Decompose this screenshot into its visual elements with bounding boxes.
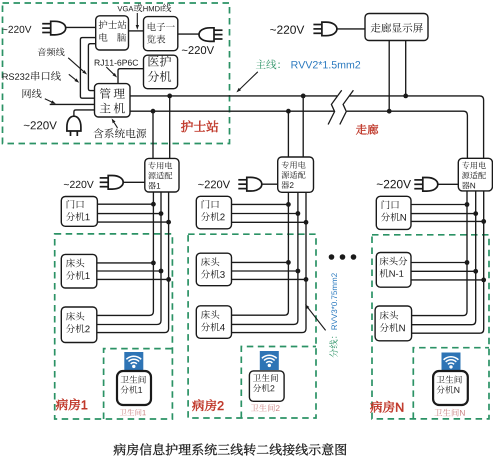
label 走廊 red — [356, 124, 378, 135]
label 床头分机3 — [201, 257, 220, 266]
wire corridor display drop left — [388, 41, 390, 112]
wire ward2 drop from bus2 — [287, 111, 289, 157]
wire door1 stub2 — [97, 213, 161, 215]
label 专用电源适配器1 — [148, 162, 172, 170]
bus line1 left segment — [130, 95, 337, 97]
box 医护分机 — [144, 55, 178, 88]
label 门口分机N — [382, 200, 399, 209]
label 病房1 red — [56, 399, 87, 411]
junction dot — [304, 220, 309, 225]
wifi icon 卫生间分机N — [442, 353, 461, 372]
wire door2 stub3 — [232, 221, 307, 223]
junction dot — [159, 269, 164, 274]
box 管理主机 — [95, 84, 131, 117]
box 卫生间分机1 — [117, 371, 151, 405]
wire ward1 branch1 — [97, 192, 154, 315]
junction dot — [151, 202, 156, 207]
wire RS232 PC to host — [80, 38, 95, 99]
label 门口分机2 — [202, 200, 219, 209]
plug P6 ~220V adapter2 — [238, 177, 277, 191]
label 卫生间2 — [251, 404, 280, 412]
label 病房N red — [370, 401, 403, 413]
bus line2 left segment — [130, 110, 334, 112]
wire door1 stub3 — [97, 221, 168, 223]
bathroomN dashed border 卫生间N — [413, 348, 489, 419]
label 护士站电脑 — [99, 20, 127, 29]
label 卫生间N — [434, 409, 464, 417]
junction dot — [151, 109, 156, 114]
junction dot — [304, 277, 309, 282]
label 护士站 red — [181, 120, 218, 132]
wire wardN branch3 — [412, 191, 484, 333]
bus line1 right segment — [350, 96, 484, 158]
label ~220V wardN — [377, 180, 411, 188]
wire ward1 branch2 — [97, 192, 161, 325]
wire wardN branch1 — [412, 191, 467, 316]
wire bedN-1 stub3 — [411, 279, 484, 281]
bus line2 right segment — [347, 111, 468, 158]
wire bed1 stub2 — [97, 270, 161, 272]
plug P3 ~220V host — [67, 116, 81, 136]
junction dot — [159, 211, 164, 216]
label 病房2 red — [192, 399, 223, 411]
junction dot — [465, 260, 470, 265]
plug P1 ~220V nurse PC — [42, 21, 65, 35]
wire door2 stub1 — [232, 203, 289, 205]
box 专用电源适配器N — [458, 158, 492, 191]
label 门口分机1 — [67, 200, 84, 209]
wire VGA between PC and list — [129, 30, 144, 32]
wire corridor display to plug P4 — [337, 28, 365, 30]
junction dot — [166, 220, 171, 225]
wire bedN-1 stub2 — [411, 270, 476, 272]
label ~220V top-left — [2, 26, 31, 33]
break mark left — [328, 90, 342, 124]
wire ward2 branch2 — [232, 192, 298, 324]
wire corridor display drop right — [405, 41, 407, 96]
wire wardN branch2 — [412, 191, 476, 325]
ward2 dashed border 病房2 — [188, 234, 316, 418]
wire ward1 drop from bus2 — [152, 111, 154, 158]
label 卫生间分机2 — [253, 374, 278, 382]
wire ward1 drop from bus1 — [169, 96, 171, 158]
junction dot — [296, 269, 301, 274]
arrow 分线 pointer — [305, 304, 326, 330]
label 卫生间分机1 — [121, 375, 146, 383]
bathroom1 dashed border 卫生间1 — [104, 349, 173, 419]
arrow 网线 pointer — [45, 99, 56, 104]
label 床头分机2 — [66, 312, 85, 321]
box 床头分机4 — [196, 306, 231, 339]
wire doorN stub1 — [411, 204, 467, 206]
box 卫生间分机N — [433, 371, 468, 405]
wire bed1 stub1 — [97, 262, 154, 264]
label 主线 RVV2*1.5mm2 — [256, 60, 280, 70]
label 床头分机1 — [66, 259, 85, 268]
box 床头分机3 — [196, 253, 231, 286]
wifi icon 卫生间分机2 — [260, 351, 279, 370]
junction dot — [286, 202, 291, 207]
wire host to plug P3 — [74, 110, 95, 117]
wire bed3 stub1 — [232, 261, 289, 263]
plug P4 ~220V corridor — [313, 22, 337, 36]
nurse station dashed border 护士站 — [3, 3, 230, 144]
label 走廊显示屏 — [371, 23, 423, 33]
wire ward1 branch3 — [97, 192, 169, 333]
junction dot — [481, 219, 486, 224]
box 床头分机1 — [61, 254, 97, 288]
wire list to plug P2 — [178, 33, 199, 35]
box 床头分机N — [375, 306, 412, 341]
label 专用电源适配器2 — [282, 161, 306, 169]
junction dot — [296, 211, 301, 216]
box 门口分机N — [376, 196, 411, 229]
label 床头分机4 — [201, 310, 220, 319]
ellipsis dots between ward2 and wardN — [329, 254, 357, 260]
wire bed3 stub3 — [232, 278, 307, 280]
plug P2 ~220V list — [199, 28, 223, 42]
arrow RS232 pointer — [69, 74, 79, 82]
wire door2 stub2 — [232, 213, 298, 215]
label ~220V host — [24, 121, 57, 129]
junction dot — [286, 260, 291, 265]
junction dot — [301, 94, 306, 99]
box 门口分机2 — [196, 196, 231, 229]
wire bedN-1 stub1 — [411, 262, 467, 264]
label ~220V list — [182, 46, 214, 54]
break mark right — [340, 90, 354, 124]
label VGA或HMDI线 — [117, 4, 171, 13]
arrow RJ11 pointer — [106, 67, 117, 78]
wire audio PC to host — [88, 44, 95, 91]
label ~220V ward1 — [64, 181, 94, 188]
junction dot — [167, 94, 172, 99]
bathroom2 dashed border 卫生间2 — [241, 347, 316, 419]
wire network line — [50, 103, 95, 105]
label ~220V corridor — [270, 25, 304, 33]
wire ward2 branch1 — [232, 192, 289, 315]
wire plug P1 to nurse PC — [66, 26, 96, 28]
label 卫生间分机N — [437, 375, 462, 383]
wire ward2 drop from bus1 — [302, 96, 304, 157]
label ~220V ward2 — [198, 180, 230, 188]
box 护士站电脑 — [96, 16, 129, 50]
wardN dashed border 病房N — [372, 235, 489, 419]
label 医护分机 — [148, 56, 171, 67]
junction dot — [286, 109, 291, 114]
wifi icon 卫生间分机1 — [124, 352, 143, 371]
arrow VGA pointer — [136, 13, 139, 30]
label 音频线 — [38, 48, 65, 57]
label 分线 RVV3*0.75mm2 vertical — [329, 337, 338, 358]
box 门口分机1 — [61, 197, 97, 227]
junction dot — [403, 94, 408, 99]
junction dot — [387, 109, 392, 114]
plug P5 ~220V adapter1 — [100, 176, 145, 190]
label 含系统电源 — [94, 128, 147, 138]
box 电子一览表 — [144, 17, 178, 51]
wire doorN stub3 — [411, 220, 484, 222]
label 床头分机N — [380, 311, 399, 320]
arrow 主线 pointer — [236, 72, 257, 93]
arrow 音频线 pointer — [68, 58, 87, 75]
box 专用电源适配器2 — [278, 157, 314, 192]
wire host to medical extension — [118, 69, 144, 84]
box 卫生间分机2 — [249, 371, 284, 401]
junction dot — [473, 269, 478, 274]
junction dot — [465, 202, 470, 207]
label 床头分机N-1 — [380, 257, 408, 266]
junction dot — [151, 261, 156, 266]
wire bed1 stub3 — [97, 278, 169, 280]
box 走廊显示屏 — [365, 14, 428, 41]
wire ward2 branch3 — [232, 192, 307, 333]
box 床头分机N-1 — [376, 253, 411, 288]
junction dot — [166, 277, 171, 282]
wire bed3 stub2 — [232, 270, 298, 272]
label 电子一览表 — [148, 22, 175, 31]
plug P7 ~220V adapterN — [414, 178, 458, 192]
arrow 含系统电源 pointer — [112, 118, 118, 128]
junction dot — [481, 278, 486, 283]
label 网线 — [23, 89, 42, 98]
title 病房信息护理系统三线转二线接线示意图 — [114, 443, 347, 455]
box 专用电源适配器1 — [145, 158, 179, 192]
ward1 dashed border 病房1 — [55, 234, 173, 419]
label RS232串口线 — [3, 71, 61, 81]
label 卫生间1 — [120, 409, 146, 416]
label 管理主机 — [100, 88, 111, 99]
label RJ11-6P6C — [95, 60, 138, 66]
wire doorN stub2 — [411, 213, 476, 215]
wire door1 stub1 — [97, 203, 153, 205]
label 专用电源适配器N — [462, 161, 486, 169]
box 床头分机2 — [61, 307, 97, 343]
junction dot — [473, 211, 478, 216]
